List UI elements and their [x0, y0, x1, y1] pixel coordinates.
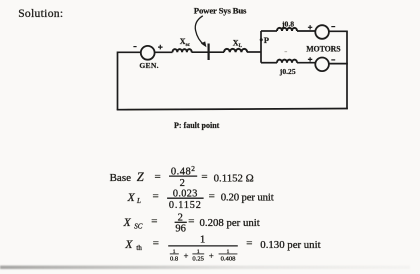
- svg-text:=: =: [153, 238, 159, 250]
- svg-text:=: =: [152, 191, 158, 203]
- svg-text:=: =: [188, 215, 194, 227]
- svg-text:+: +: [184, 251, 189, 261]
- svg-text:XL: XL: [233, 38, 243, 49]
- svg-text:Solution:: Solution:: [18, 7, 63, 20]
- svg-text:=: =: [209, 191, 215, 203]
- svg-text:GEN.: GEN.: [139, 61, 158, 70]
- svg-text:j0.25: j0.25: [279, 67, 296, 76]
- svg-text:SC: SC: [134, 222, 143, 230]
- svg-text:j0.8: j0.8: [281, 19, 294, 28]
- svg-text:P: fault point: P: fault point: [174, 121, 220, 130]
- svg-text:Z: Z: [137, 170, 145, 184]
- svg-text:=: =: [154, 171, 160, 183]
- svg-text:P: P: [264, 35, 269, 45]
- svg-text:L: L: [136, 197, 141, 205]
- svg-text:=: =: [151, 215, 157, 227]
- svg-text:MOTORS: MOTORS: [306, 44, 341, 53]
- svg-text:0.482: 0.482: [171, 164, 196, 177]
- svg-text:2: 2: [180, 178, 185, 189]
- svg-text:Xsc: Xsc: [180, 37, 191, 48]
- svg-text:0.8: 0.8: [170, 255, 179, 262]
- svg-text:+: +: [209, 251, 214, 261]
- svg-text:0.20 per unit: 0.20 per unit: [221, 191, 274, 203]
- svg-text:X: X: [123, 217, 132, 229]
- svg-text:0.208 per unit: 0.208 per unit: [200, 217, 260, 229]
- svg-text:0.130 per unit: 0.130 per unit: [260, 239, 320, 251]
- svg-text:th: th: [136, 244, 142, 252]
- svg-text:0.408: 0.408: [221, 255, 237, 262]
- svg-text:X: X: [127, 192, 136, 204]
- svg-text:Base: Base: [110, 172, 132, 184]
- svg-text:=: =: [201, 171, 207, 183]
- svg-text:=: =: [246, 238, 252, 250]
- svg-text:X: X: [124, 239, 133, 251]
- svg-text:0.1152 Ω: 0.1152 Ω: [214, 172, 254, 184]
- svg-text:96: 96: [175, 224, 186, 235]
- svg-text:0.1152: 0.1152: [169, 200, 202, 211]
- svg-text:Power Sys Bus: Power Sys Bus: [194, 6, 247, 16]
- svg-text:0.25: 0.25: [192, 255, 204, 262]
- svg-text:1: 1: [200, 235, 205, 246]
